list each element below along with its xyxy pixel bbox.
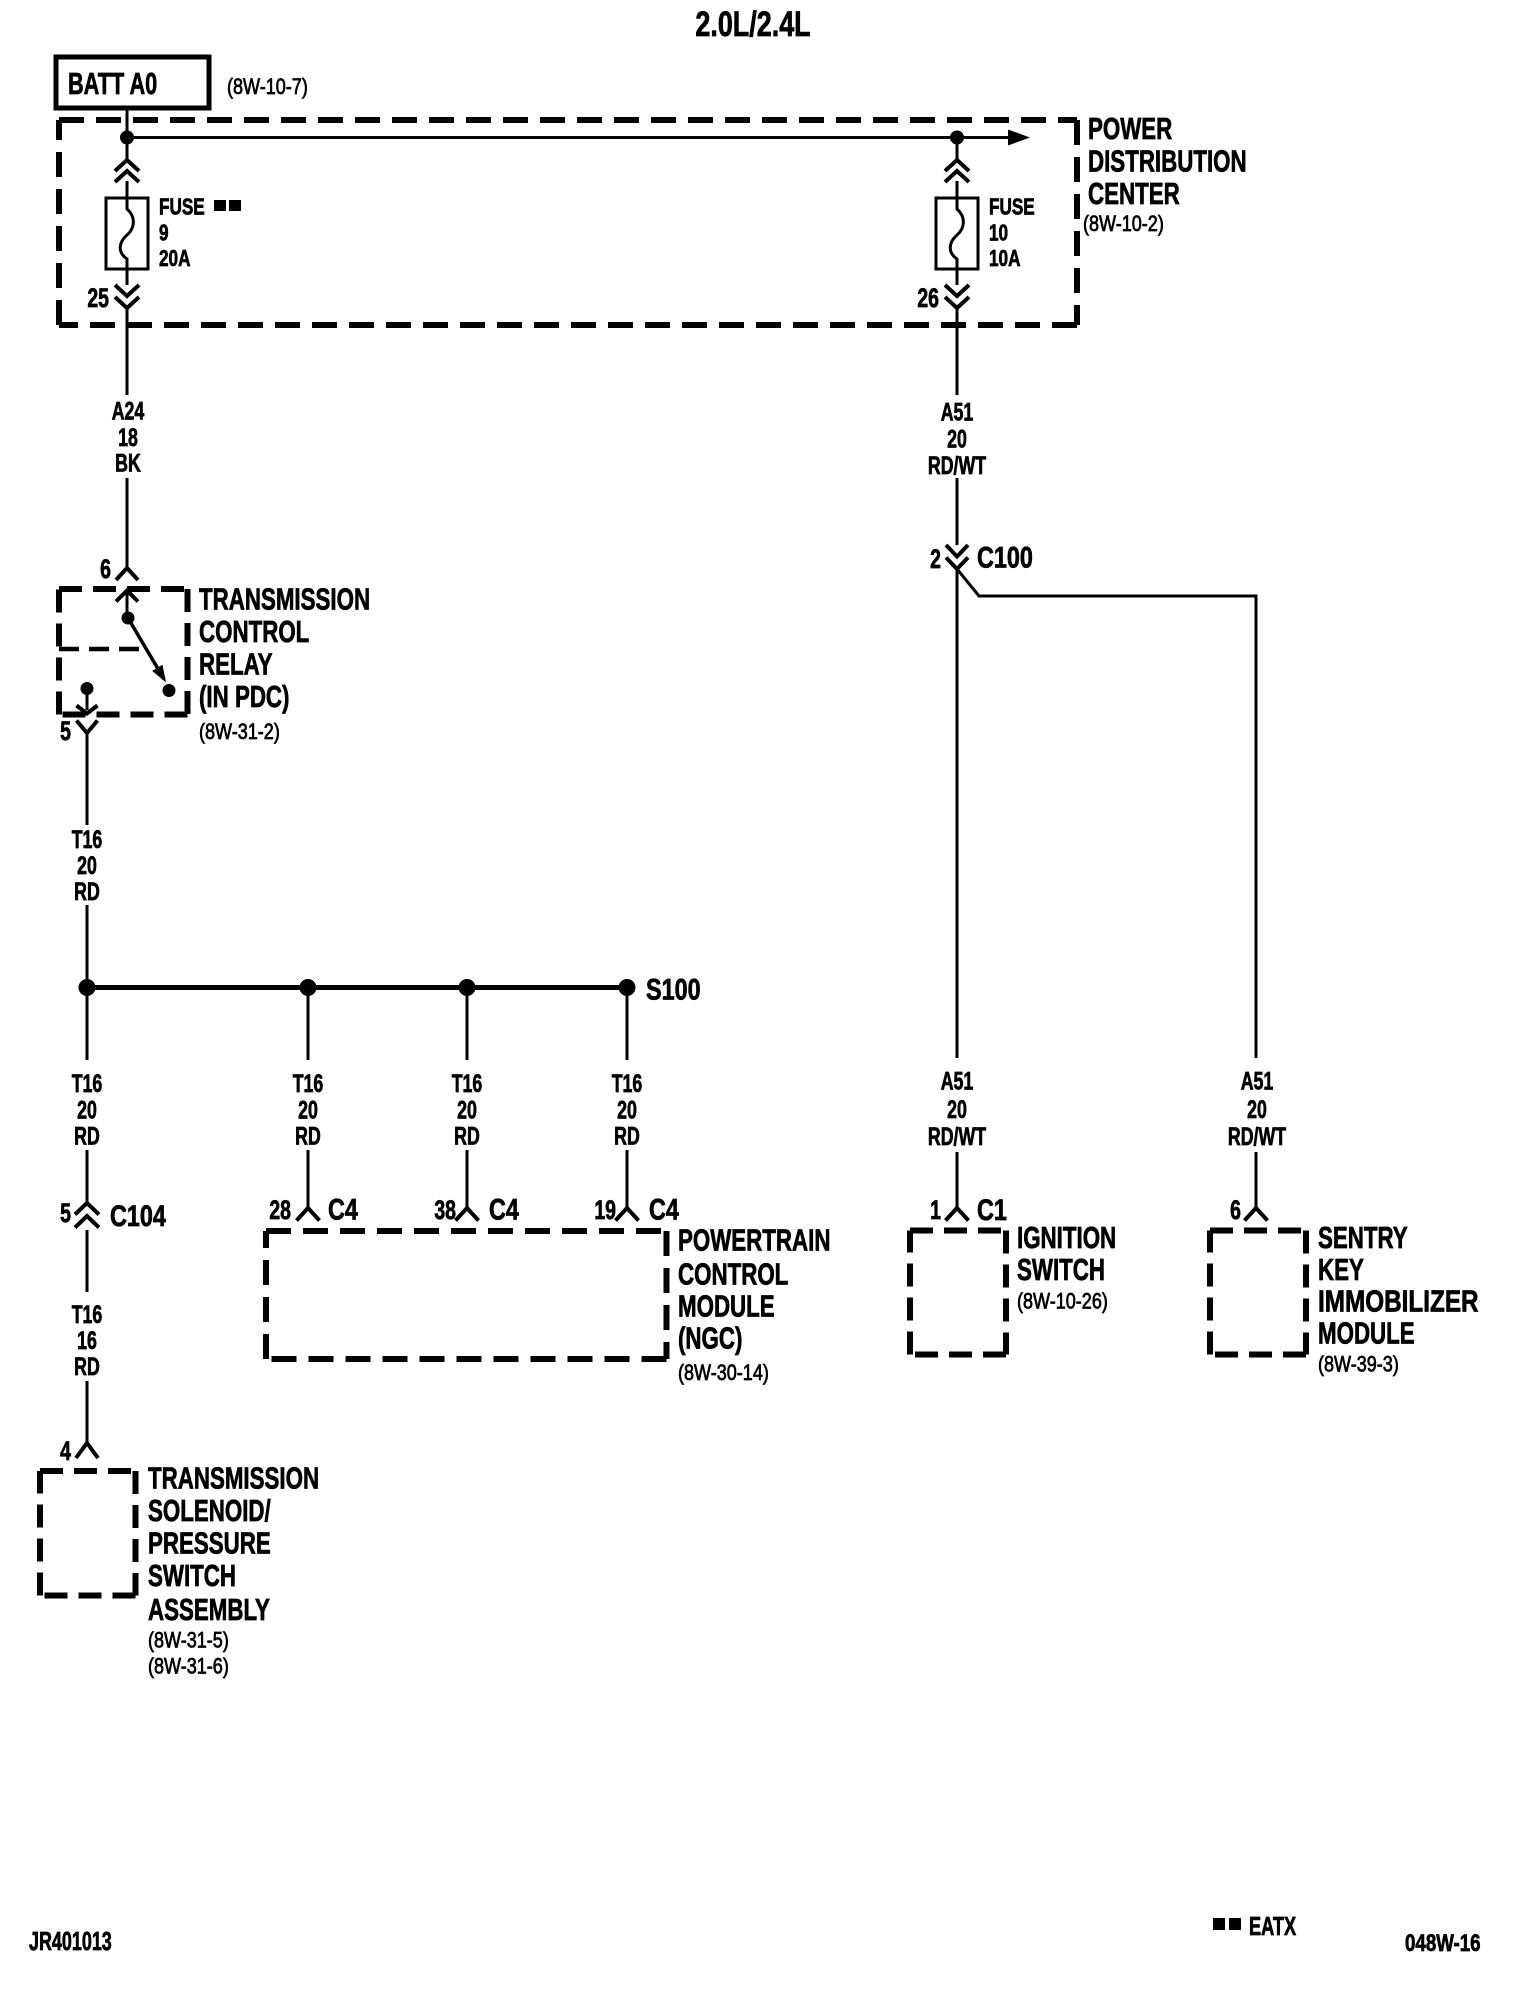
connector chevron sentry pin 6 [1245, 1208, 1268, 1221]
node splice dot 4 [619, 979, 636, 996]
connector C4 chevron (pin 19) [616, 1208, 639, 1221]
svg-text:5: 5 [60, 1198, 71, 1228]
svg-text:CONTROL: CONTROL [678, 1257, 788, 1291]
connector C4 label (pin 28) [328, 1193, 358, 1226]
pin 26 [917, 283, 939, 313]
wire label A51 20 RD/WT (ignition) [928, 1066, 986, 1150]
svg-text:20A: 20A [159, 245, 191, 271]
svg-text:20: 20 [947, 424, 967, 453]
SENTRY KEY IMMOBILIZER MODULE label [1318, 1220, 1479, 1377]
svg-text:38: 38 [434, 1195, 456, 1225]
relay internal divider [59, 647, 144, 652]
connector C1 chevron [946, 1208, 969, 1221]
svg-text:4: 4 [60, 1436, 71, 1466]
pin 5 C104 [60, 1198, 71, 1228]
connector chevron relay pin 6 [116, 568, 138, 580]
wire node to fuse 10 [956, 138, 959, 199]
svg-text:(8W-31-5): (8W-31-5) [148, 1629, 229, 1653]
svg-text:RD: RD [454, 1121, 480, 1150]
svg-text:FUSE: FUSE [989, 194, 1035, 220]
fuse 9 [106, 198, 148, 269]
svg-text:C4: C4 [328, 1193, 358, 1226]
svg-text:C1: C1 [977, 1193, 1007, 1226]
wire to ignition switch pin 1 [956, 1152, 959, 1208]
svg-text:TRANSMISSION: TRANSMISSION [148, 1461, 319, 1495]
wire S100 to PCM pin 38 [466, 988, 469, 1061]
node splice dot 3 [459, 979, 476, 996]
wire A24 to relay pin 6 [126, 478, 129, 568]
svg-text:A24: A24 [112, 396, 145, 425]
svg-text:6: 6 [1230, 1195, 1241, 1225]
connector C4 chevron (pin 38) [456, 1208, 479, 1221]
BATT A0 feed box [56, 57, 209, 108]
svg-text:RD: RD [74, 1352, 100, 1381]
svg-text:20: 20 [947, 1095, 967, 1124]
connector chevrons pin 25 [115, 285, 139, 308]
pin 6 sentry [1230, 1195, 1241, 1225]
svg-text:RELAY: RELAY [199, 647, 273, 681]
svg-text:19: 19 [594, 1195, 616, 1225]
svg-text:POWERTRAIN: POWERTRAIN [678, 1223, 830, 1257]
wire S100 to PCM pin 19 [626, 988, 629, 1061]
POWER DISTRIBUTION CENTER label [1083, 111, 1247, 236]
wire to PCM pin 38 [466, 1150, 469, 1208]
connector chevron relay pin 5 [77, 721, 98, 734]
connector C4 label (pin 19) [649, 1193, 679, 1226]
svg-text:S100: S100 [646, 973, 701, 1006]
connector C4 chevron (pin 28) [297, 1208, 320, 1221]
svg-text:6: 6 [100, 554, 111, 584]
pin 38 [434, 1195, 456, 1225]
node junction at fuse 9 feed [120, 131, 134, 145]
wire label A24 18 BK [112, 396, 145, 477]
node S100 label [646, 973, 701, 1006]
wire to PCM pin 28 [307, 1150, 310, 1208]
svg-text:(8W-30-14): (8W-30-14) [678, 1361, 769, 1385]
wire feed bus with arrow [127, 130, 1030, 146]
splice S100 bus wire [87, 985, 627, 990]
svg-text:20: 20 [77, 851, 97, 880]
pin 25 [87, 283, 109, 313]
wire C104 down [86, 1230, 89, 1292]
sentry key immobilizer module dashed box [1210, 1231, 1306, 1355]
wire fuse 9 to pin 25 [126, 269, 129, 285]
footer 048W-16 [1405, 1930, 1481, 1957]
svg-text:POWER: POWER [1088, 111, 1172, 145]
TRANSMISSION CONTROL RELAY label [199, 582, 370, 745]
svg-text:2.0L/2.4L: 2.0L/2.4L [695, 5, 810, 44]
wire node to fuse 9 [126, 138, 129, 199]
svg-text:C100: C100 [977, 541, 1033, 574]
wire label T16 20 RD (branch 2) [293, 1069, 324, 1150]
fuse 10 [936, 198, 978, 269]
svg-text:TRANSMISSION: TRANSMISSION [199, 582, 370, 616]
svg-text:C104: C104 [110, 1199, 166, 1232]
title 2.0L/2.4L [695, 5, 810, 44]
svg-text:RD: RD [614, 1121, 640, 1150]
footer EATX legend [1213, 1912, 1296, 1941]
reference (8W-10-7) [227, 75, 308, 99]
fuse 9 value label FUSE 9 20A [159, 194, 241, 272]
pin 19 [594, 1195, 616, 1225]
svg-text:28: 28 [269, 1195, 291, 1225]
svg-text:(8W-10-26): (8W-10-26) [1017, 1290, 1108, 1314]
svg-text:A51: A51 [1241, 1066, 1274, 1095]
svg-text:20: 20 [457, 1095, 477, 1124]
connector chevrons pin 26 [945, 285, 969, 308]
svg-text:RD: RD [74, 1121, 100, 1150]
svg-text:CENTER: CENTER [1088, 176, 1180, 210]
svg-text:FUSE: FUSE [159, 194, 205, 220]
connector chevrons above fuse 9 [115, 160, 139, 182]
powertrain control module dashed box [266, 1231, 667, 1359]
wire fuse 10 to pin 26 [956, 269, 959, 285]
transmission solenoid/pressure switch assembly dashed box [40, 1471, 136, 1596]
svg-text:DISTRIBUTION: DISTRIBUTION [1088, 144, 1247, 178]
pin 4 [60, 1436, 71, 1466]
svg-text:T16: T16 [293, 1069, 324, 1098]
svg-text:(8W-10-2): (8W-10-2) [1083, 212, 1164, 236]
footer JR401013 [29, 1927, 112, 1956]
svg-text:26: 26 [917, 283, 939, 313]
svg-text:(8W-39-3): (8W-39-3) [1318, 1353, 1399, 1377]
relay output contact [77, 682, 98, 714]
svg-text:9: 9 [159, 220, 169, 246]
svg-text:(NGC): (NGC) [678, 1321, 742, 1355]
svg-text:ASSEMBLY: ASSEMBLY [148, 1592, 270, 1626]
wire S100 to C104 branch [86, 988, 89, 1061]
svg-text:25: 25 [87, 283, 109, 313]
svg-text:(8W-31-6): (8W-31-6) [148, 1655, 229, 1679]
wire label T16 20 RD (relay out) [72, 825, 103, 906]
svg-text:16: 16 [77, 1326, 97, 1355]
wire label A51 20 RD/WT (sentry) [1228, 1066, 1286, 1150]
svg-text:PRESSURE: PRESSURE [148, 1526, 271, 1560]
svg-text:CONTROL: CONTROL [199, 614, 309, 648]
wire pin 26 out of PDC [956, 308, 959, 395]
svg-text:C4: C4 [489, 1193, 519, 1226]
svg-text:20: 20 [77, 1095, 97, 1124]
svg-text:RD/WT: RD/WT [928, 451, 986, 480]
svg-text:(8W-10-7): (8W-10-7) [227, 75, 308, 99]
wire pin 25 out of PDC [126, 308, 129, 395]
svg-text:1: 1 [930, 1195, 941, 1225]
svg-text:T16: T16 [72, 1300, 103, 1329]
connector C104 label [110, 1199, 166, 1232]
connector chevrons above fuse 10 [945, 160, 969, 182]
wire label T16 20 RD (branch 1) [72, 1069, 103, 1150]
wire S100 to PCM pin 28 [307, 988, 310, 1061]
svg-text:T16: T16 [452, 1069, 483, 1098]
power distribution center dashed box [59, 120, 1077, 325]
svg-text:T16: T16 [612, 1069, 643, 1098]
svg-text:5: 5 [60, 716, 71, 746]
wire label T16 16 RD [72, 1300, 103, 1381]
svg-text:2: 2 [930, 544, 941, 574]
wire relay pin 5 down [86, 733, 89, 825]
wire to PCM pin 19 [626, 1150, 629, 1208]
fuse 10 value label FUSE 10 10A [989, 194, 1035, 272]
transmission control relay dashed box [59, 589, 188, 715]
svg-text:A51: A51 [941, 397, 974, 426]
IGNITION SWITCH label [1017, 1220, 1116, 1314]
svg-text:20: 20 [617, 1095, 637, 1124]
svg-text:RD/WT: RD/WT [928, 1122, 986, 1151]
pin 6 [100, 554, 111, 584]
svg-text:20: 20 [1247, 1095, 1267, 1124]
svg-text:048W-16: 048W-16 [1405, 1930, 1481, 1957]
svg-text:(IN PDC): (IN PDC) [199, 679, 289, 713]
svg-text:EATX: EATX [1249, 1912, 1296, 1941]
svg-text:BATT A0: BATT A0 [68, 66, 157, 101]
pin 28 [269, 1195, 291, 1225]
svg-text:SOLENOID/: SOLENOID/ [148, 1493, 271, 1527]
svg-text:SWITCH: SWITCH [1017, 1252, 1105, 1286]
svg-text:RD/WT: RD/WT [1228, 1122, 1286, 1151]
wire to connector C104 [86, 1150, 89, 1203]
svg-text:IMMOBILIZER: IMMOBILIZER [1318, 1284, 1479, 1319]
node junction at fuse 10 feed [950, 131, 964, 145]
wire BATT A0 to node [126, 108, 129, 137]
wire C100 to ignition switch [956, 569, 959, 1058]
wire to sentry key module pin 6 [1255, 1152, 1258, 1208]
svg-text:RD: RD [295, 1121, 321, 1150]
POWERTRAIN CONTROL MODULE (NGC) label [678, 1223, 830, 1386]
svg-text:MODULE: MODULE [678, 1289, 775, 1323]
wire C100 branch to sentry key module [957, 569, 1256, 1058]
connector C4 label (pin 38) [489, 1193, 519, 1226]
connector C100 label [977, 541, 1033, 574]
svg-text:10: 10 [989, 220, 1008, 246]
svg-text:JR401013: JR401013 [29, 1927, 112, 1956]
svg-text:MODULE: MODULE [1318, 1316, 1415, 1350]
svg-text:RD: RD [74, 877, 100, 906]
svg-text:C4: C4 [649, 1193, 679, 1226]
node splice dot 1 [79, 979, 96, 996]
pin 5 [60, 716, 71, 746]
connector chevron pin 4 [76, 1443, 98, 1458]
svg-text:10A: 10A [989, 245, 1021, 271]
wire label T16 20 RD (branch 3) [452, 1069, 483, 1150]
svg-text:(8W-31-2): (8W-31-2) [199, 720, 280, 744]
ignition switch dashed box [910, 1231, 1006, 1355]
wire label T16 20 RD (branch 4) [612, 1069, 643, 1150]
svg-text:SENTRY: SENTRY [1318, 1220, 1408, 1254]
wire to solenoid assembly pin 4 [86, 1381, 89, 1442]
wire label A51 20 RD/WT (top) [928, 397, 986, 479]
pin 1 C1 [930, 1195, 941, 1225]
wire A51 to C100 [956, 478, 959, 545]
relay switch arm [116, 591, 176, 698]
svg-text:BK: BK [115, 448, 141, 477]
svg-text:20: 20 [298, 1095, 318, 1124]
svg-text:SWITCH: SWITCH [148, 1558, 236, 1592]
svg-text:IGNITION: IGNITION [1017, 1220, 1116, 1254]
pin 2 C100 [930, 544, 941, 574]
svg-text:T16: T16 [72, 1069, 103, 1098]
connector C104 chevrons [75, 1203, 99, 1228]
connector C100 chevrons [946, 545, 968, 569]
wire T16 to splice S100 [86, 905, 89, 985]
svg-text:KEY: KEY [1318, 1252, 1364, 1286]
TRANSMISSION SOLENOID/PRESSURE SWITCH ASSEMBLY label [148, 1461, 319, 1679]
connector C1 label [977, 1193, 1007, 1226]
svg-text:T16: T16 [72, 825, 103, 854]
svg-text:A51: A51 [941, 1066, 974, 1095]
node splice dot 2 [300, 979, 317, 996]
